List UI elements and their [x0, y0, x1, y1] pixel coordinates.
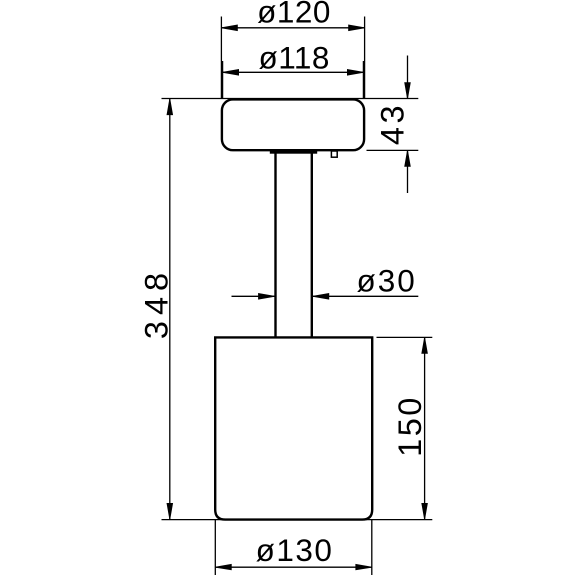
svg-text:43: 43: [375, 102, 411, 145]
svg-text:ø118: ø118: [258, 40, 329, 76]
svg-text:ø120: ø120: [257, 0, 331, 29]
svg-text:150: 150: [392, 395, 428, 457]
svg-text:ø130: ø130: [256, 532, 334, 568]
svg-text:348: 348: [138, 267, 174, 339]
svg-text:ø30: ø30: [357, 263, 417, 299]
